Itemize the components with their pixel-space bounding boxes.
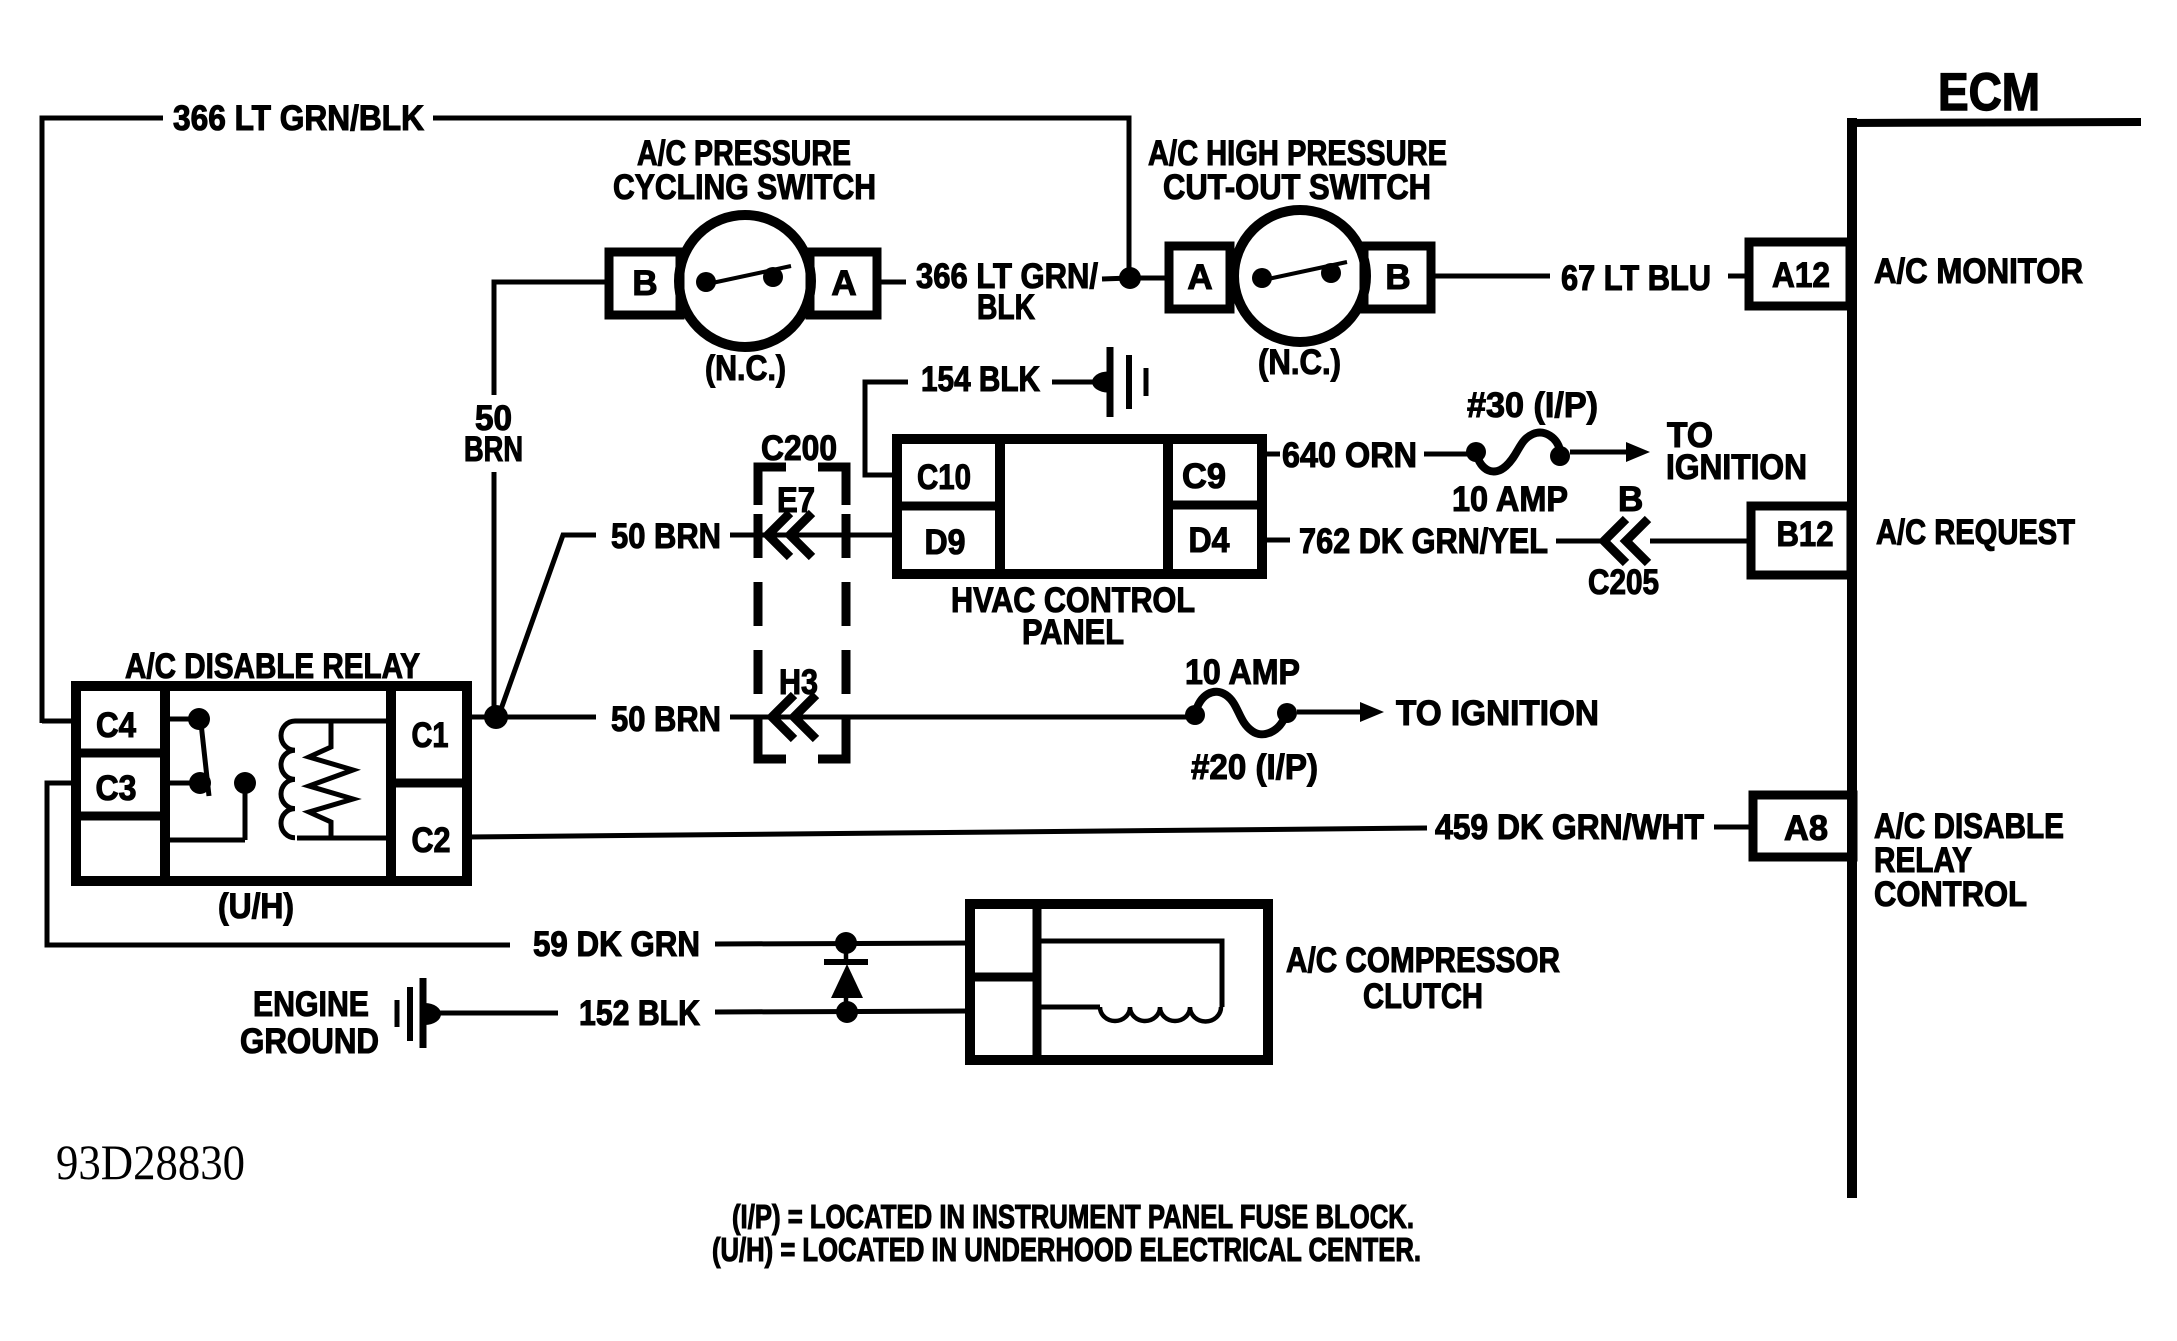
wire C205 to B12: [1650, 539, 1751, 544]
cut-out switch terminal B box: [1364, 246, 1431, 309]
fuse #30 10 AMP symbol: [1466, 433, 1570, 472]
svg-text:B: B: [1618, 480, 1643, 519]
svg-text:59 DK GRN: 59 DK GRN: [533, 925, 700, 964]
svg-text:(N.C.): (N.C.): [705, 349, 786, 388]
svg-text:D9: D9: [925, 523, 966, 562]
cut-out switch contact dots and blade: [1252, 268, 1272, 288]
wire 59 DK GRN to clutch: [715, 943, 970, 944]
svg-text:(I/P) = LOCATED IN INSTRUMENT: (I/P) = LOCATED IN INSTRUMENT PANEL FUSE…: [732, 1198, 1414, 1235]
clutch terminal split: [970, 973, 1037, 982]
svg-text:A/C REQUEST: A/C REQUEST: [1876, 513, 2075, 552]
svg-text:C200: C200: [761, 429, 837, 468]
svg-text:IGNITION: IGNITION: [1666, 448, 1807, 487]
svg-text:B: B: [632, 264, 657, 303]
svg-text:A12: A12: [1772, 256, 1830, 295]
connector C205 chevrons: [1604, 519, 1648, 563]
wire 640 ORN to fuse 30: [1424, 452, 1468, 457]
A/C pressure cycling switch body circle: [679, 215, 811, 347]
wire 67 LT BLU from cut-out switch B to ECM A12: [1431, 274, 1550, 279]
wire stub to junction: [1102, 278, 1130, 279]
wire 50 BRN vertical lower segment: [492, 472, 497, 717]
wire into relay C4: [42, 719, 76, 724]
wire 366 LT GRN/BLK left vertical segment: [42, 118, 163, 723]
wire junction to cut-out switch A: [1130, 276, 1169, 281]
svg-text:GROUND: GROUND: [240, 1022, 379, 1061]
A/C disable relay outer box: [76, 686, 467, 881]
wire 154 BLK from HVAC C10: [865, 382, 908, 475]
svg-text:A: A: [1187, 258, 1212, 297]
svg-text:C3: C3: [96, 769, 137, 808]
wire stub into A8: [1714, 825, 1753, 830]
HVAC control panel outer box: [897, 439, 1262, 574]
arrow to ignition (fuse 20): [1297, 702, 1384, 722]
fuse #20 10 AMP symbol: [1185, 692, 1297, 735]
wire stub into A12: [1728, 274, 1749, 279]
svg-text:762 DK GRN/YEL: 762 DK GRN/YEL: [1299, 522, 1548, 561]
svg-text:#20 (I/P): #20 (I/P): [1191, 748, 1318, 787]
ground symbol 154 BLK: [1092, 347, 1146, 417]
relay terminal C4 box: [76, 749, 165, 758]
svg-text:67 LT BLU: 67 LT BLU: [1561, 259, 1711, 298]
svg-text:C205: C205: [1588, 563, 1659, 602]
svg-text:154 BLK: 154 BLK: [921, 360, 1040, 399]
relay terminal C1 box: [391, 779, 467, 788]
junction node 366 LT GRN/BLK at cut-out switch: [1119, 267, 1141, 289]
A/C high pressure cut-out switch body circle: [1234, 210, 1366, 342]
svg-text:10 AMP: 10 AMP: [1185, 653, 1300, 692]
svg-text:(U/H): (U/H): [218, 887, 294, 926]
HVAC terminal C9 box: [1168, 501, 1262, 510]
svg-text:H3: H3: [779, 663, 818, 702]
ECM terminal B12 box: [1751, 506, 1851, 575]
svg-text:B12: B12: [1777, 515, 1834, 554]
svg-text:A8: A8: [1784, 809, 1828, 848]
junction node 50 BRN: [484, 705, 508, 729]
connector E7 chevrons: [768, 513, 812, 557]
ECM connector vertical bus line: [1847, 118, 1857, 1198]
relay switch contacts: [165, 708, 256, 840]
junction node 152 BLK diode bottom: [836, 1001, 858, 1023]
svg-text:BLK: BLK: [977, 288, 1035, 327]
svg-text:BRN: BRN: [464, 430, 523, 469]
arrow to ignition (fuse 30): [1570, 442, 1650, 462]
wire 459 DK GRN/WHT from relay C2 to A8: [467, 828, 1427, 837]
connector C200 dashed box: [758, 467, 846, 759]
svg-text:CYCLING SWITCH: CYCLING SWITCH: [613, 168, 876, 207]
svg-text:CUT-OUT SWITCH: CUT-OUT SWITCH: [1163, 168, 1431, 207]
svg-text:C4: C4: [96, 706, 136, 745]
clutch terminal divider: [1033, 904, 1042, 1060]
cycling switch terminal A box: [810, 252, 877, 315]
wire 762 DK GRN/YEL from HVAC D4: [1262, 538, 1290, 543]
svg-text:D4: D4: [1189, 521, 1230, 560]
svg-text:TO IGNITION: TO IGNITION: [1396, 694, 1599, 733]
HVAC left terminal divider: [995, 439, 1005, 574]
wire 366 LT GRN/BLK top horizontal to cut-out switch: [433, 118, 1129, 278]
cut-out switch terminal A box: [1169, 246, 1230, 309]
svg-text:366 LT GRN/BLK: 366 LT GRN/BLK: [173, 99, 424, 138]
clutch inner wiring and coil: [1037, 941, 1222, 1021]
svg-text:(U/H) = LOCATED IN UNDERHOOD E: (U/H) = LOCATED IN UNDERHOOD ELECTRICAL …: [712, 1231, 1421, 1268]
svg-text:PANEL: PANEL: [1022, 613, 1124, 652]
svg-text:50 BRN: 50 BRN: [611, 517, 721, 556]
relay coil: [281, 721, 391, 838]
svg-text:C1: C1: [412, 716, 449, 755]
wire 152 BLK from ground: [436, 1011, 558, 1016]
svg-text:C10: C10: [917, 458, 971, 497]
svg-text:E7: E7: [777, 481, 815, 520]
ECM terminal A12 box: [1749, 242, 1850, 306]
junction node 59 DK GRN diode top: [835, 932, 857, 954]
svg-text:A/C COMPRESSOR: A/C COMPRESSOR: [1286, 941, 1560, 980]
wire to C205 connector: [1556, 539, 1604, 544]
wire 50 BRN from cycling switch B down: [494, 282, 609, 395]
engine ground symbol: [397, 978, 441, 1048]
wire 50 BRN upper row diagonal from junction: [496, 535, 596, 717]
svg-text:ECM: ECM: [1938, 63, 2040, 122]
wire 50 BRN lower through H3 to fuse 20: [730, 715, 1195, 720]
wire 152 BLK to clutch: [715, 1011, 970, 1012]
diode between 59 DK GRN and 152 BLK: [824, 943, 868, 1012]
ECM terminal A8 box: [1753, 795, 1853, 857]
ECM top horizontal line: [1847, 122, 2141, 123]
svg-text:A/C MONITOR: A/C MONITOR: [1874, 252, 2083, 291]
svg-text:#30 (I/P): #30 (I/P): [1467, 386, 1598, 425]
relay right terminal divider: [386, 686, 396, 881]
svg-text:640 ORN: 640 ORN: [1282, 436, 1417, 475]
svg-text:A/C DISABLE RELAY: A/C DISABLE RELAY: [125, 647, 420, 686]
svg-text:CONTROL: CONTROL: [1874, 875, 2027, 914]
cycling switch contact dots and blade: [696, 272, 716, 292]
svg-text:C9: C9: [1182, 457, 1226, 496]
svg-text:B: B: [1385, 258, 1410, 297]
svg-text:(N.C.): (N.C.): [1258, 343, 1341, 382]
wire from relay C3 down to 59 DK GRN: [47, 783, 510, 945]
relay left terminal divider: [160, 686, 170, 881]
A/C compressor clutch outer box: [970, 904, 1268, 1060]
svg-text:50 BRN: 50 BRN: [611, 700, 721, 739]
svg-text:C2: C2: [412, 821, 451, 860]
wire 50 BRN upper to E7 and D9: [730, 533, 897, 538]
connector H3 chevrons: [772, 695, 816, 739]
HVAC right terminal divider: [1163, 439, 1173, 574]
svg-text:93D28830: 93D28830: [56, 1134, 245, 1190]
wire 640 ORN from HVAC C9: [1262, 452, 1280, 457]
relay terminal C3 box: [76, 812, 165, 821]
svg-text:ENGINE: ENGINE: [253, 985, 369, 1024]
svg-text:459 DK GRN/WHT: 459 DK GRN/WHT: [1435, 808, 1704, 847]
svg-text:CLUTCH: CLUTCH: [1363, 977, 1483, 1016]
wire 154 BLK to ground: [1052, 380, 1094, 385]
svg-text:10 AMP: 10 AMP: [1452, 480, 1568, 519]
cycling switch terminal B box: [609, 252, 680, 315]
wire from relay C1 to junction: [467, 715, 596, 720]
HVAC terminal C10 box: [897, 502, 1000, 511]
wire 366 LT GRN/BLK from cycling switch A: [877, 280, 906, 285]
svg-text:A: A: [831, 264, 856, 303]
svg-text:152 BLK: 152 BLK: [579, 994, 700, 1033]
